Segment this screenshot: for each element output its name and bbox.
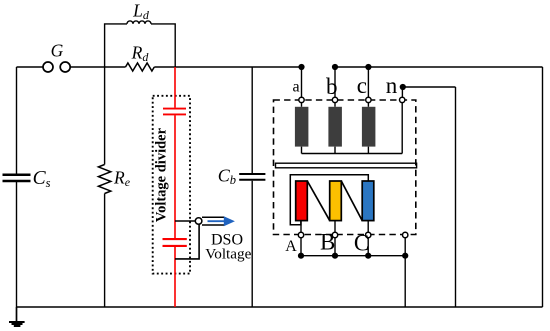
svg-text:a: a	[292, 79, 299, 96]
wire: primary c stub	[367, 103, 369, 107]
voltage divider dotted enclosure	[153, 96, 190, 274]
secondary delta link wire	[290, 175, 368, 225]
wire: Cb branch vertical	[251, 67, 253, 307]
wire: neutral n link to right	[402, 87, 455, 97]
primary winding a (dark)	[295, 107, 309, 147]
secondary winding C (blue)	[362, 181, 374, 221]
svg-text:C: C	[354, 230, 369, 255]
svg-text:n: n	[386, 73, 398, 98]
terminal circle a	[299, 97, 304, 102]
transformer dashed enclosure	[274, 100, 416, 235]
junction dot bus A	[298, 253, 304, 259]
wire: Re branch vertical	[104, 67, 106, 307]
wire: DSO tap lower lead loop	[175, 224, 199, 259]
svg-text:c: c	[357, 73, 367, 98]
secondary winding B (yellow)	[330, 181, 342, 221]
junction dot bus B	[332, 253, 338, 259]
ground symbol	[9, 307, 25, 327]
secondary diagonal link B-C	[341, 181, 362, 221]
probe connector circle	[195, 218, 202, 225]
wire: phase c drop	[367, 67, 369, 97]
wire: secondary C stub	[367, 221, 369, 233]
capacitor C1 (divider top, red) plates	[163, 109, 186, 115]
secondary diagonal link A-B	[307, 181, 329, 221]
wire: phase a drop	[301, 67, 303, 97]
wire: top main bus left segment (left rail to spark gap)	[17, 66, 43, 68]
svg-text:A: A	[285, 238, 297, 255]
wire: top bus right segment (node b to c to right rail corner)	[335, 66, 543, 68]
wire: primary b stub	[334, 103, 336, 107]
wire: top main bus middle segment (spark gap to node a)	[70, 66, 301, 68]
junction dot node a	[298, 64, 304, 70]
junction dot bus right	[402, 253, 408, 259]
terminal circle A	[298, 232, 303, 237]
secondary winding A (red)	[296, 181, 308, 221]
wire: secondary A stub	[300, 221, 302, 233]
resistor Re zigzag	[98, 165, 110, 194]
wire: primary neutral drop	[401, 103, 403, 154]
capacitor Cb plates	[239, 174, 265, 180]
transformer core bar	[276, 163, 417, 168]
terminal circle n	[400, 97, 405, 102]
wire: left rail (Cs branch)	[16, 67, 18, 307]
junction dot bus C	[365, 253, 371, 259]
terminal circle C	[366, 232, 371, 237]
svg-text:Voltage divider: Voltage divider	[153, 127, 169, 222]
junction dot node b	[332, 64, 338, 70]
wire: right rail down	[542, 67, 544, 307]
svg-text:G: G	[51, 41, 64, 61]
terminal circle secondary-neutral	[403, 232, 408, 237]
spark gap G electrode circles	[43, 62, 53, 72]
svg-text:Voltage: Voltage	[205, 246, 251, 263]
junction dot node c	[365, 64, 371, 70]
primary winding b (dark)	[328, 107, 342, 147]
terminal circle c	[366, 97, 371, 102]
wire: neutral rail down	[455, 87, 457, 307]
wire: bottom ground bus	[17, 306, 543, 308]
resistor Rd zigzag	[126, 63, 155, 71]
wire: primary a stub	[301, 103, 303, 107]
voltage divider red column wire	[163, 67, 187, 307]
wire: secondary ground bus	[301, 238, 405, 307]
terminal circle b	[332, 97, 337, 102]
junction dot node n	[400, 84, 406, 90]
capacitor C2 (divider bottom, red) plates	[163, 239, 187, 246]
primary winding c (dark)	[362, 107, 376, 147]
terminal circle B	[332, 232, 337, 237]
capacitor Cs plates	[3, 175, 31, 181]
wire: phase b drop	[334, 67, 336, 97]
svg-text:B: B	[320, 230, 335, 255]
wire: primary star bus	[302, 147, 403, 154]
probe coax fork lines	[202, 217, 225, 225]
inductor Ld loop and humps	[105, 21, 176, 67]
wire: DSO tap upper lead	[175, 220, 195, 222]
wire: secondary B stub	[334, 221, 336, 233]
svg-text:b: b	[326, 74, 338, 99]
DSO signal arrow (blue)	[208, 220, 225, 222]
